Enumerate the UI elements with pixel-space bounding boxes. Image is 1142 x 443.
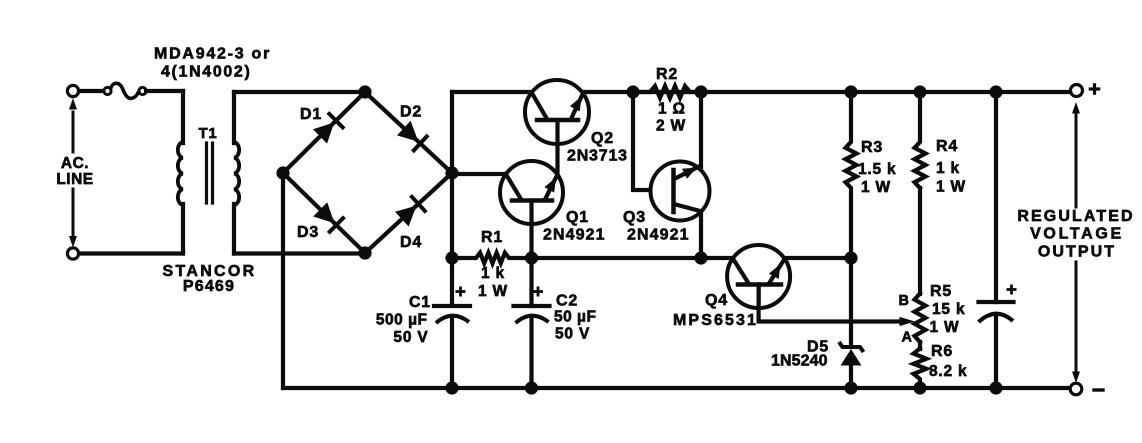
wire from top terminal to fuse — [79, 89, 104, 93]
svg-text:8.2 k: 8.2 k — [929, 363, 967, 380]
label R3 value — [858, 161, 896, 196]
label R3 — [861, 139, 883, 156]
svg-text:REGULATED: REGULATED — [1017, 208, 1134, 225]
node R2 right / Q3 emitter — [694, 85, 707, 98]
fuse F1 — [104, 83, 146, 98]
resistor R1 — [452, 253, 532, 264]
diode D4 — [395, 197, 425, 227]
label D5 — [807, 339, 829, 356]
svg-text:C1: C1 — [409, 294, 431, 311]
wire from fuse to transformer primary — [146, 89, 183, 93]
node D5 bottom — [844, 381, 857, 394]
svg-text:1 k: 1 k — [936, 160, 960, 177]
AC input top terminal — [67, 85, 78, 96]
wire D5 upper lead — [849, 258, 853, 347]
transformer T1 core — [207, 143, 213, 203]
node R6 bottom — [913, 381, 926, 394]
label AC. LINE — [56, 155, 93, 188]
label C2 — [554, 293, 596, 343]
label T1 — [198, 125, 217, 142]
svg-text:1 Ω: 1 Ω — [658, 101, 686, 118]
diode D3 — [313, 202, 343, 232]
svg-text:1 W: 1 W — [930, 319, 960, 336]
diode D1 — [313, 114, 343, 144]
label R6 value — [929, 363, 967, 380]
label R5 — [930, 283, 952, 300]
label - at negative terminal — [1094, 388, 1103, 391]
label B — [899, 293, 910, 309]
resistor R3 — [846, 92, 857, 258]
wire R1 node to Q4 and R3 node — [532, 256, 852, 260]
label Q3 — [623, 209, 646, 226]
svg-text:A: A — [902, 330, 913, 346]
label + at positive terminal — [1090, 85, 1098, 93]
wire C1 lower lead — [450, 316, 454, 388]
label R2 value — [656, 101, 686, 135]
wire from bottom terminal to transformer primary — [79, 251, 183, 255]
node R2 left / Q3 base — [626, 85, 639, 98]
transistor Q2 — [525, 80, 589, 144]
bridge edge bottom-right wire — [365, 173, 452, 253]
svg-text:D2: D2 — [400, 104, 422, 121]
resistor R2 — [633, 86, 702, 98]
output capacitor plus sign — [1008, 286, 1015, 293]
label R1 — [481, 229, 503, 246]
label Q1 — [566, 209, 589, 226]
label R4 — [936, 138, 958, 155]
wire Q3 emitter/collector vertical — [699, 92, 703, 258]
svg-text:Q2: Q2 — [591, 130, 614, 147]
svg-text:1 W: 1 W — [478, 283, 508, 300]
bridge edge left-top wire — [283, 92, 365, 173]
label D2 — [400, 104, 422, 121]
svg-text:Q3: Q3 — [623, 209, 646, 226]
positive top rail — [452, 90, 1071, 94]
C2 plus sign — [534, 288, 541, 295]
node bridge right — [445, 166, 458, 179]
transformer T1 secondary winding — [234, 92, 239, 254]
diode D2 — [397, 121, 427, 151]
label R4 value — [936, 160, 966, 196]
label C1 — [376, 294, 431, 346]
node Q3 collector junction — [694, 251, 707, 264]
resistor R4 — [915, 92, 926, 188]
node bridge left — [276, 166, 289, 179]
svg-text:2N4921: 2N4921 — [543, 227, 606, 244]
node C1 bottom — [445, 381, 458, 394]
node output cap bottom — [989, 381, 1002, 394]
svg-text:P6469: P6469 — [183, 278, 235, 295]
node R1 right / Q1 base / C2 — [525, 251, 538, 264]
wire C2 upper lead — [529, 258, 533, 306]
svg-text:500 µF: 500 µF — [376, 312, 428, 329]
wire R4 to R5 — [918, 188, 922, 294]
svg-text:B: B — [899, 293, 910, 309]
svg-text:D1: D1 — [300, 106, 322, 123]
AC input bottom terminal — [67, 248, 78, 259]
wire output capacitor lower lead — [994, 314, 998, 388]
svg-text:R6: R6 — [931, 343, 953, 360]
node R3 top — [844, 85, 857, 98]
R5 wiper arrow — [900, 317, 916, 326]
svg-text:Q1: Q1 — [566, 209, 589, 226]
label D4 — [400, 234, 422, 251]
svg-text:R2: R2 — [656, 66, 678, 83]
capacitor C1 — [434, 306, 470, 323]
svg-text:1 W: 1 W — [861, 179, 891, 196]
transistor Q4 — [727, 245, 790, 308]
svg-text:T1: T1 — [198, 125, 217, 142]
svg-text:R4: R4 — [936, 138, 958, 155]
label REGULATED VOLTAGE OUTPUT — [1017, 208, 1134, 261]
svg-text:2N3713: 2N3713 — [567, 148, 628, 165]
label Q4 type MPS6531 — [673, 312, 758, 329]
label Q2 — [591, 130, 614, 147]
wire vertical from top rail corner through bridge right node down to negative rail — [450, 92, 454, 304]
wire Q1 base to R1 node — [529, 200, 533, 258]
output negative terminal — [1070, 383, 1082, 395]
C1 plus sign — [457, 288, 464, 295]
svg-text:15 k: 15 k — [932, 301, 965, 318]
wire secondary to bridge top node — [234, 90, 365, 94]
wire Q3 base from top rail — [633, 92, 651, 190]
svg-text:LINE: LINE — [56, 171, 93, 188]
node bridge bottom — [358, 246, 371, 259]
node output cap top — [989, 85, 1002, 98]
output annotation arrows — [1072, 102, 1080, 383]
label STANCOR P6469 — [162, 263, 256, 295]
svg-text:2N4921: 2N4921 — [627, 227, 690, 244]
svg-text:R3: R3 — [861, 139, 883, 156]
negative bottom rail — [283, 386, 1071, 390]
label D1 — [300, 106, 322, 123]
label Q2 type 2N3713 — [567, 148, 628, 165]
resistor R6 — [914, 349, 927, 389]
svg-text:D4: D4 — [400, 234, 422, 251]
svg-text:50 V: 50 V — [555, 326, 590, 343]
transistor Q1 — [500, 161, 563, 224]
bridge edge top-right wire — [365, 92, 452, 173]
label MDA942-3 or 4(1N4002) — [154, 46, 271, 81]
svg-text:MDA942-3 or: MDA942-3 or — [154, 46, 271, 63]
svg-text:MPS6531: MPS6531 — [673, 312, 758, 329]
capacitor C2 — [514, 306, 550, 323]
svg-text:1N5240: 1N5240 — [771, 353, 828, 370]
svg-text:1 k: 1 k — [481, 265, 505, 282]
wire output capacitor upper lead — [994, 92, 998, 302]
transistor Q3 — [651, 162, 710, 221]
label R5 value — [930, 301, 966, 336]
node R3 bottom / Q4 emitter / D5 — [844, 251, 857, 264]
svg-text:1 W: 1 W — [936, 179, 966, 196]
svg-text:1.5 k: 1.5 k — [858, 161, 896, 178]
wire bridge left node down to negative rail — [281, 173, 285, 388]
output positive terminal — [1071, 85, 1083, 97]
node R1 left / C1 — [445, 251, 458, 264]
wire C2 lower lead — [529, 316, 533, 388]
wire Q4 base to R5 wiper — [759, 285, 901, 322]
label R1 value — [478, 265, 508, 300]
AC line annotation arrows — [69, 98, 77, 248]
svg-text:D3: D3 — [297, 224, 319, 241]
wire secondary to bridge bottom node — [234, 251, 365, 255]
svg-text:AC.: AC. — [61, 155, 89, 172]
svg-text:VOLTAGE: VOLTAGE — [1030, 226, 1124, 243]
label A — [902, 330, 913, 346]
label Q1 type 2N4921 — [543, 227, 606, 244]
wire bridge right node to Q1 collector — [452, 172, 557, 176]
label D5 type 1N5240 — [771, 353, 828, 370]
svg-text:2 W: 2 W — [656, 118, 686, 135]
label R2 — [656, 66, 678, 83]
zener diode D5 — [839, 342, 864, 388]
svg-text:R5: R5 — [930, 283, 952, 300]
label Q3 type 2N4921 — [627, 227, 690, 244]
svg-text:50 µF: 50 µF — [554, 309, 596, 326]
potentiometer R5 — [915, 294, 926, 343]
transformer T1 primary winding — [178, 91, 183, 254]
bridge edge left-bottom wire — [283, 173, 365, 253]
label Q4 — [705, 292, 728, 309]
node C2 bottom — [525, 381, 538, 394]
svg-text:4(1N4002): 4(1N4002) — [161, 64, 251, 81]
wire Q2 base down to Q1 emitter — [555, 140, 559, 174]
label D3 — [297, 224, 319, 241]
label R6 — [931, 343, 953, 360]
svg-text:R1: R1 — [481, 229, 503, 246]
svg-text:50 V: 50 V — [393, 329, 428, 346]
wire R5 to R6 — [918, 342, 922, 349]
node R4 top — [913, 85, 926, 98]
output capacitor — [979, 302, 1014, 322]
svg-text:C2: C2 — [556, 293, 578, 310]
svg-text:Q4: Q4 — [705, 292, 728, 309]
svg-text:OUTPUT: OUTPUT — [1038, 244, 1116, 261]
node bridge top — [358, 85, 371, 98]
